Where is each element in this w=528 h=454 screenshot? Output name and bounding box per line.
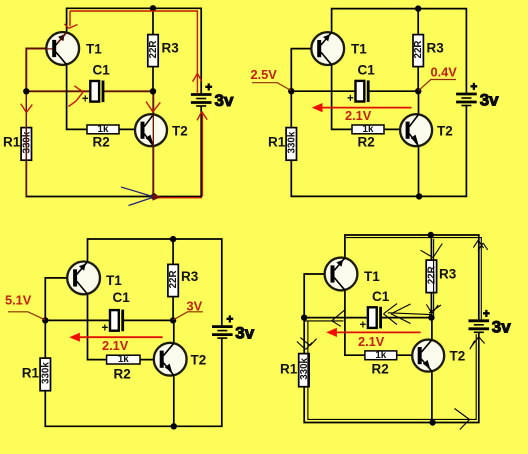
svg-text:T2: T2 [450, 349, 466, 364]
transistor T1 [67, 262, 100, 295]
overlay C1 to R3 node diagonal [388, 313, 431, 315]
wire node to T2 collector [431, 318, 433, 340]
red arrow into T1 emitter [65, 11, 78, 28]
svg-text:C1: C1 [372, 289, 390, 304]
svg-text:2.1V: 2.1V [102, 338, 129, 353]
svg-text:+: + [102, 322, 109, 334]
svg-text:3V: 3V [187, 298, 203, 313]
svg-text:3v: 3v [235, 323, 254, 342]
wire T1 base net (dark red overlay) [26, 49, 53, 92]
transistor T2 [400, 114, 432, 146]
battery 3v [456, 82, 499, 110]
node bottom rail [416, 193, 422, 199]
wire node to C1 left [45, 319, 110, 321]
resistor R2 [107, 354, 140, 365]
svg-text:+: + [359, 320, 366, 332]
svg-text:22R: 22R [413, 41, 424, 59]
transistor T2 [154, 343, 187, 376]
wire node to C1 left (dark red) [26, 90, 90, 92]
red overlay through T2 [152, 115, 154, 146]
svg-text:T1: T1 [351, 42, 367, 57]
resistor R2 [365, 350, 397, 361]
svg-text:2.5V: 2.5V [251, 67, 278, 82]
node A (left) [23, 88, 29, 94]
wire R3 top [430, 235, 432, 260]
wire T1 base net [291, 49, 318, 92]
resistor R1 [286, 128, 297, 161]
svg-text:2.1V: 2.1V [345, 108, 372, 123]
wire T1 collector to R2 [67, 65, 87, 130]
wire R3 bottom to node [430, 293, 432, 318]
svg-text:T1: T1 [106, 273, 122, 288]
svg-text:R2: R2 [372, 361, 389, 376]
svg-text:330k: 330k [286, 131, 297, 153]
svg-text:T2: T2 [437, 124, 453, 139]
wire node to T2 collector [173, 320, 175, 343]
arrow right on bottom rail [455, 409, 470, 430]
svg-text:T2: T2 [191, 353, 207, 368]
svg-text:R3: R3 [427, 41, 445, 56]
wire battery - to bottom rail and R1 bottom [45, 338, 222, 426]
overlay top rail and right down [346, 238, 481, 320]
wire node to R1 top [303, 318, 305, 354]
svg-text:+: + [347, 93, 354, 105]
svg-text:C1: C1 [113, 290, 131, 305]
wire T2 emitter to bottom rail [431, 371, 433, 422]
svg-text:+: + [226, 314, 233, 326]
node A (left) [42, 317, 48, 323]
wire top rail (T1 emitter to battery +) [67, 8, 202, 94]
wire C1 right to node [123, 319, 173, 321]
transistor T1 [311, 32, 344, 65]
svg-text:3v: 3v [492, 318, 511, 337]
wire R2 to T2 base [119, 128, 143, 130]
battery 3v [469, 308, 512, 336]
transistor T2 [135, 114, 167, 146]
svg-text:R1: R1 [280, 361, 298, 376]
wire R3 top [172, 239, 174, 264]
wire T2 emitter to bottom rail [173, 375, 175, 426]
wire node to C1 left [291, 90, 355, 92]
wire C1 right to node [369, 90, 418, 92]
node B (R3 bottom) [415, 88, 421, 94]
wire node to R1 top [44, 320, 46, 358]
capacitor C1 [102, 310, 123, 335]
node bottom rail [151, 193, 157, 199]
transistor T1 [46, 32, 79, 65]
arrow down at R3 top [421, 244, 443, 258]
svg-text:T1: T1 [364, 269, 380, 284]
node top rail [150, 5, 156, 11]
overlay through R3 [433, 239, 435, 316]
svg-text:5.1V: 5.1V [5, 293, 32, 308]
blue scribble arrow at bottom node [121, 187, 153, 206]
svg-text:R1: R1 [268, 135, 286, 150]
arrows left at C1 right [384, 304, 411, 325]
resistor R3 [168, 264, 179, 296]
wire T2 emitter to bottom rail [418, 146, 420, 196]
svg-text:22R: 22R [426, 266, 437, 284]
capacitor C1 [359, 307, 380, 332]
wire T1 collector to R2 [332, 65, 352, 130]
wire R2 to T2 base [140, 359, 160, 361]
wire R2 to T2 base [384, 128, 408, 130]
resistor R1 [299, 354, 310, 387]
wire battery - to bottom rail and R1 bottom [304, 332, 479, 422]
battery 3v [212, 314, 255, 342]
node B (R3 bottom) [150, 88, 156, 94]
red arrow 2.1V [335, 331, 421, 333]
small arrow at bottom node [153, 193, 162, 200]
svg-text:+: + [82, 93, 89, 105]
overlay mid wire from node [305, 320, 344, 322]
current path overlay lines [297, 238, 488, 430]
node B (R3 bottom) [428, 314, 434, 320]
svg-text:C1: C1 [358, 62, 376, 77]
svg-text:330k: 330k [40, 362, 51, 384]
wire top rail (T1 emitter to battery +) [345, 235, 479, 321]
wire R3 bottom to node [417, 67, 419, 92]
wire T1 base net [45, 278, 73, 321]
arrow left at node A [332, 310, 345, 327]
red arrow 2.1V [321, 107, 412, 109]
arrow up at top right corner [473, 240, 487, 250]
resistor R3 [413, 35, 424, 67]
capacitor C1 [347, 80, 368, 105]
svg-text:C1: C1 [93, 63, 111, 78]
wire red overlay through R1 [25, 91, 27, 196]
wire T1 collector to R2 [345, 290, 365, 355]
arrows up below battery [470, 337, 485, 350]
red arrow down at R1 [21, 104, 33, 113]
wire R2 to T2 base [397, 354, 418, 356]
node B (R3 bottom) [170, 317, 176, 323]
leader 3V to node [174, 312, 204, 320]
wire node to T2 collector (dark red) [152, 91, 154, 115]
svg-text:3v: 3v [480, 90, 499, 109]
arrows down on left vertical [297, 338, 317, 350]
svg-text:0.4V: 0.4V [431, 65, 458, 80]
svg-text:1k: 1k [363, 124, 374, 135]
svg-text:T1: T1 [86, 42, 102, 57]
node A (left) [288, 88, 294, 94]
svg-text:R3: R3 [162, 41, 180, 56]
arrow down at R3 bottom [426, 304, 441, 313]
svg-text:+: + [483, 308, 490, 320]
wire T2 emitter to bottom rail (dark red) [152, 146, 154, 196]
wire battery - to bottom rail and R1 bottom [26, 106, 201, 196]
wire R3 top [417, 9, 419, 35]
svg-text:22R: 22R [168, 270, 179, 288]
red current path top rail [21, 11, 207, 198]
svg-text:R1: R1 [3, 135, 21, 150]
leader 2.5V to node [252, 83, 291, 91]
svg-text:22R: 22R [148, 41, 159, 59]
wire node to C1 left [304, 317, 368, 319]
svg-text:R2: R2 [358, 135, 375, 150]
red arrow into C1 [69, 86, 84, 107]
wire R3 top [152, 8, 154, 34]
svg-text:+: + [205, 82, 212, 94]
transistor T1 [325, 258, 358, 291]
svg-text:R3: R3 [181, 269, 199, 284]
battery 3v [191, 82, 234, 110]
red arrow 2.1V [78, 336, 163, 338]
leader 0.4V to node [419, 80, 456, 91]
svg-text:1k: 1k [118, 354, 129, 365]
wire node to R1 top [290, 91, 292, 127]
node bottom rail [429, 419, 435, 425]
wire R3 bottom to node [172, 297, 174, 321]
resistor R3 [148, 35, 159, 67]
svg-text:1k: 1k [375, 350, 386, 361]
red return wire to battery - [197, 112, 207, 197]
wire battery - to bottom rail and R1 bottom [291, 106, 466, 197]
svg-text:1k: 1k [98, 124, 109, 135]
red bottom rail overlay [155, 197, 202, 199]
wire T1 collector to R2 [88, 294, 107, 360]
resistor R2 [87, 124, 119, 135]
node top rail [428, 232, 434, 238]
node top rail [170, 236, 176, 242]
svg-text:R2: R2 [114, 367, 131, 382]
wire C1 right to node [381, 317, 432, 319]
wire C1 right to node (dark red) [104, 90, 153, 92]
red overlay through T1 base [47, 33, 67, 49]
wire R3 bottom to node [152, 67, 154, 92]
svg-text:2.1V: 2.1V [358, 334, 385, 349]
wire T1 base net [304, 274, 331, 318]
wire top rail (T1 emitter to battery +) [88, 239, 222, 326]
resistor R1 [40, 358, 51, 391]
node A (left) [301, 314, 307, 320]
svg-text:R3: R3 [439, 267, 457, 282]
capacitor C1 [82, 81, 103, 106]
red arrow up into battery + [193, 74, 202, 82]
wire node to T2 collector [418, 91, 420, 114]
svg-text:3v: 3v [215, 91, 234, 110]
resistor R2 [352, 124, 384, 135]
resistor R3 [426, 260, 437, 293]
svg-text:R1: R1 [22, 366, 40, 381]
node top rail [415, 5, 421, 11]
resistor R1 [21, 128, 32, 161]
leader 5.1V to node [8, 312, 45, 320]
svg-text:R2: R2 [93, 135, 110, 150]
transistor T2 [412, 340, 444, 372]
node bottom rail [171, 423, 177, 429]
svg-text:T2: T2 [172, 124, 188, 139]
wire top rail (T1 emitter to battery +) [332, 9, 467, 94]
overlay battery - to bottom and up left side [308, 321, 476, 420]
red arrow down at T2 collector [146, 102, 160, 112]
svg-text:+: + [471, 82, 478, 94]
